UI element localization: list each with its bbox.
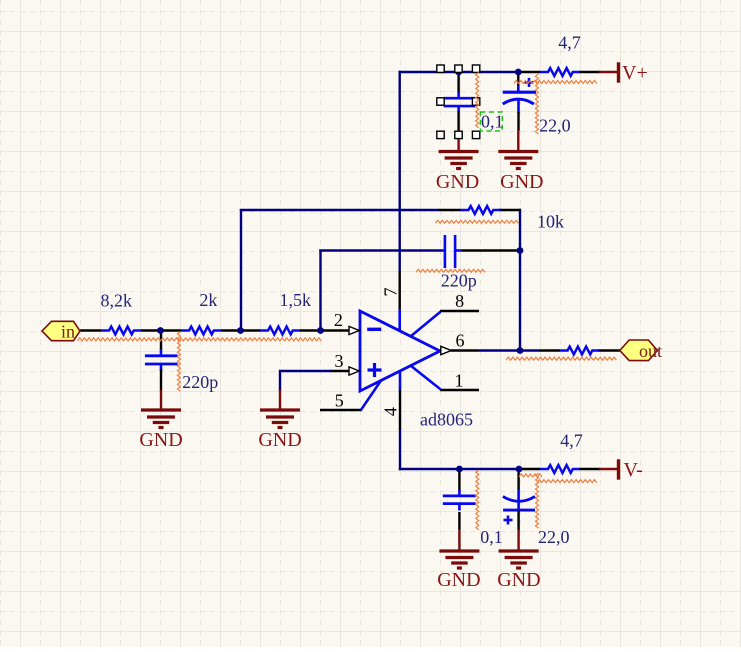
svg-text:GND: GND [497,569,540,591]
text GND top-left [436,171,479,193]
pin number 3 [335,351,344,371]
label 22,0 top [539,116,571,136]
op-amp pin 7 stub [399,271,401,332]
pin number 2 [334,310,343,330]
svg-text:8,2k: 8,2k [101,291,133,311]
svg-text:GND: GND [258,429,301,451]
selection handles around C3 [437,65,480,139]
op-amp pin 5 stub [320,381,381,411]
capacitor C4 22,0 polarized top [503,72,536,131]
pin number 8 [455,291,464,311]
ground GND top-right [498,130,538,169]
resistor R7 4,7 bottom [540,465,580,473]
pin number 7 (rotated) [381,288,401,297]
ground GND top-left [439,130,479,169]
junction C (input 1) [157,327,164,334]
svg-text:0,1: 0,1 [481,112,504,132]
wire top rail black segment to R 4,7 [518,71,540,73]
svg-text:220p: 220p [441,271,477,291]
pin number 4 (rotated) [381,407,401,416]
text GND bottom-right [497,569,540,591]
svg-text:2: 2 [334,310,343,330]
svg-text:4,7: 4,7 [558,33,581,53]
svg-text:0,1: 0,1 [480,527,503,547]
svg-text:out: out [639,341,662,361]
svg-text:1: 1 [455,371,464,391]
label 4,7 top [558,33,581,53]
svg-text:GND: GND [139,429,182,451]
junction I (C6 bottom) [516,466,523,473]
svg-text:GND: GND [500,171,543,193]
wire bottom rail V- net [399,468,520,470]
svg-text:22,0: 22,0 [538,527,570,547]
label V+ [622,62,648,84]
ground GND pin3 [260,390,300,428]
port in [42,321,80,341]
selected label box for 0,1 [480,112,502,131]
svg-text:3: 3 [335,351,344,371]
text GND top-right [500,171,543,193]
label 0,1 top [481,112,504,132]
pin number 5 [335,391,344,411]
pin number 1 [455,371,464,391]
wire output row [451,349,621,351]
op-amp pin 8 stub [411,311,480,337]
junction B (C4 top) [515,69,522,76]
wire top rail V+ net [399,71,520,73]
op-amp U1 ad8065 triangle with + and - marks [360,311,440,391]
svg-text:in: in [61,322,75,342]
svg-text:GND: GND [436,171,479,193]
power port V- bar [617,459,620,479]
label ad8065 [420,409,473,429]
ground GND bottom-right [499,529,539,568]
resistor R5 1k output [560,347,600,355]
op-amp pin 2 input arrow [349,326,359,334]
junction E (input 3) [317,327,324,334]
label 220p feedback [441,271,477,291]
text GND pin3 [258,429,301,451]
label 220p input [182,372,218,392]
capacitor C1 220p input [145,331,178,392]
wire vertical from op-amp pin 4 [399,429,401,470]
svg-text:GND: GND [437,569,480,591]
wire input row [80,329,351,331]
label 22,0 bottom [538,527,570,547]
label V- [624,459,643,481]
ground GND bottom-left [439,529,479,568]
wire bottom rail black segment to R 4,7 [519,468,540,470]
op-amp pin 4 stub [399,371,402,430]
capacitor C2 220p feedback [441,235,462,268]
op-amp pin 1 stub [411,366,480,391]
resistor R4 10k feedback [461,206,501,214]
port out [620,340,662,361]
text GND bottom-left [437,569,480,591]
svg-text:7: 7 [381,288,401,297]
junction H (C5 bottom) [456,466,463,473]
wire vertical to op-amp pin 7 [399,71,401,271]
ground GND input cap [141,390,181,428]
svg-text:1,5k: 1,5k [280,290,312,310]
wire 220p row right segment [462,249,520,251]
capacitor C5 0,1 bottom [443,469,476,530]
junction A (C3 top) [455,69,462,76]
wire top rail V+ lead [579,71,618,73]
svg-text:6: 6 [456,331,465,351]
op-amp pin 6 output arrow [441,346,451,354]
pin number 6 [456,331,465,351]
resistor R3 1,5k [260,327,300,335]
svg-text:V-: V- [624,459,643,481]
wire feedback right vertical [499,209,521,352]
capacitor C6 22,0 polarized bottom [503,469,535,531]
svg-text:8: 8 [455,291,464,311]
svg-text:V+: V+ [622,62,648,84]
junction F (fb cap) [517,247,524,254]
label 1,5k [280,290,312,310]
svg-text:22,0: 22,0 [539,116,571,136]
resistor R6 4,7 top [540,68,580,76]
svg-text:ad8065: ad8065 [420,409,473,429]
label 10k [537,212,564,232]
svg-text:4,7: 4,7 [560,431,583,451]
svg-text:2k: 2k [199,290,217,310]
wire feedback top (10k net) [240,209,461,332]
svg-text:4: 4 [381,407,401,416]
wire pin3 to GND [279,370,352,391]
wire bottom rail V- lead [579,468,618,470]
label 0,1 bottom [480,527,503,547]
junction G (output) [517,347,524,354]
label 2k [199,290,217,310]
wire feedback cap row [319,250,441,332]
svg-text:5: 5 [335,391,344,411]
resistor R1 8,2k [101,327,141,335]
svg-text:10k: 10k [537,212,564,232]
label 4,7 bottom [560,431,583,451]
capacitor C3 0,1 top (selected) [444,72,476,131]
op-amp pin 3 input arrow [349,367,359,375]
text GND input cap [139,429,182,451]
junction D (input 2) [237,327,244,334]
resistor R2 2k [181,327,221,335]
compile mask squiggles [78,73,617,530]
label 8,2k [101,291,133,311]
power port V+ bar [617,62,620,82]
svg-text:220p: 220p [182,372,218,392]
